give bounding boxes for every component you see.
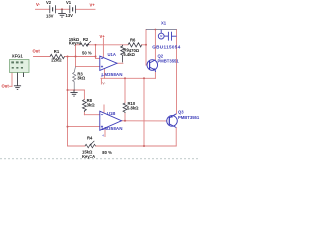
svg-text:R2: R2 xyxy=(83,37,89,42)
svg-text:V-: V- xyxy=(36,2,41,7)
svg-text:R4: R4 xyxy=(87,135,93,140)
svg-text:PMBT3551: PMBT3551 xyxy=(178,115,200,120)
svg-text:3kΩ: 3kΩ xyxy=(77,76,86,81)
svg-text:V-: V- xyxy=(102,82,105,86)
svg-text:13V: 13V xyxy=(46,14,54,19)
svg-text:3kΩ: 3kΩ xyxy=(87,103,96,108)
svg-text:22kΩ: 22kΩ xyxy=(51,58,62,63)
svg-text:Out: Out xyxy=(33,49,41,54)
svg-text:PMBT3551: PMBT3551 xyxy=(158,58,180,63)
svg-text:Key=A: Key=A xyxy=(69,40,82,45)
svg-text:GBU115054: GBU115054 xyxy=(152,44,181,49)
svg-text:5.8kΩ: 5.8kΩ xyxy=(127,106,139,111)
svg-text:V1: V1 xyxy=(66,0,72,5)
svg-text:V+: V+ xyxy=(90,2,96,7)
svg-text:80 %: 80 % xyxy=(102,150,112,155)
svg-text:V2: V2 xyxy=(46,0,52,5)
svg-text:Key=A: Key=A xyxy=(82,154,95,159)
svg-text:R6: R6 xyxy=(130,38,136,43)
svg-text:U1A: U1A xyxy=(108,52,116,57)
svg-text:5.4kΩ: 5.4kΩ xyxy=(123,52,135,57)
svg-text:V+: V+ xyxy=(100,34,106,39)
svg-text:LM358AN: LM358AN xyxy=(102,126,123,131)
svg-text:X1: X1 xyxy=(161,20,167,25)
svg-text:13V: 13V xyxy=(66,13,74,18)
svg-text:Q3: Q3 xyxy=(178,109,184,114)
svg-text:Out: Out xyxy=(2,84,10,89)
svg-text:U1B: U1B xyxy=(107,111,115,116)
svg-text:50 %: 50 % xyxy=(82,51,92,56)
svg-text:R1: R1 xyxy=(54,49,60,54)
svg-text:LM358AN: LM358AN xyxy=(102,72,123,77)
svg-text:XFG1: XFG1 xyxy=(12,53,24,58)
